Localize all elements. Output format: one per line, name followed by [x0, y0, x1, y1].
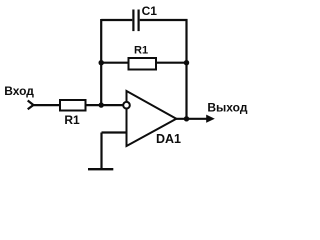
svg-text:R1: R1: [134, 45, 148, 57]
svg-text:R1: R1: [64, 113, 80, 127]
svg-text:DA1: DA1: [156, 132, 181, 146]
svg-text:Выход: Выход: [207, 100, 247, 114]
svg-text:Вход: Вход: [4, 84, 34, 98]
svg-text:C1: C1: [142, 4, 158, 18]
